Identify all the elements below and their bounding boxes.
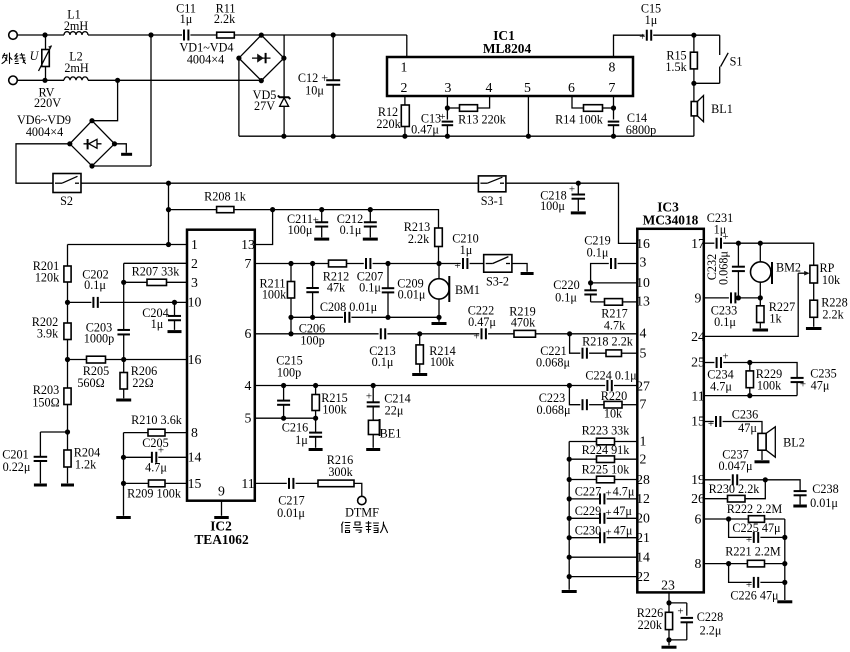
capacitor C232	[737, 243, 739, 266]
wire	[88, 34, 182, 36]
svg-text:R14 100k: R14 100k	[555, 112, 604, 126]
wire pin19 row	[704, 479, 731, 481]
capacitor C215	[283, 386, 285, 401]
svg-text:C229: C229	[575, 504, 601, 518]
junction	[526, 134, 531, 139]
svg-text:22μ: 22μ	[385, 404, 404, 418]
wire	[234, 210, 439, 228]
svg-text:120k: 120k	[35, 271, 60, 285]
junction	[691, 81, 696, 86]
wire	[238, 58, 240, 136]
capacitor C222	[481, 328, 483, 339]
resistor R202	[67, 302, 69, 323]
bridge rectifier VD6~VD9	[70, 121, 115, 166]
svg-text:4: 4	[640, 326, 647, 341]
capacitor C218	[577, 183, 579, 194]
svg-text:2: 2	[401, 80, 408, 95]
svg-text:1: 1	[191, 237, 198, 252]
svg-text:1.5k: 1.5k	[665, 60, 687, 74]
junction	[445, 105, 450, 110]
svg-text:3.9k: 3.9k	[37, 327, 59, 341]
svg-text:9: 9	[218, 484, 225, 499]
potentiometer RP	[810, 265, 818, 283]
switch S3-2	[484, 255, 512, 273]
svg-text:11: 11	[691, 389, 704, 404]
ground	[438, 317, 440, 322]
svg-text:1: 1	[640, 434, 647, 449]
wire	[234, 34, 406, 36]
wire	[693, 83, 695, 101]
wire	[17, 79, 64, 81]
wire	[693, 116, 695, 136]
junction	[371, 383, 376, 388]
svg-text:15: 15	[691, 414, 705, 429]
capacitor C228	[669, 602, 687, 604]
svg-text:6: 6	[695, 512, 702, 527]
wire	[406, 35, 408, 57]
svg-text:+: +	[473, 331, 479, 343]
wire	[123, 335, 125, 360]
svg-text:+: +	[366, 391, 372, 403]
terminal DTMF	[358, 496, 366, 504]
junction	[288, 331, 293, 336]
svg-text:15: 15	[188, 476, 202, 491]
svg-text:23: 23	[661, 578, 675, 593]
wire	[765, 563, 785, 565]
wire	[283, 35, 285, 97]
svg-text:0.1μ: 0.1μ	[359, 281, 381, 295]
svg-text:BL1: BL1	[711, 102, 733, 116]
capacitor C207	[365, 258, 367, 269]
resistor R14	[584, 105, 603, 112]
svg-text:10k: 10k	[822, 273, 841, 287]
junction	[567, 555, 572, 560]
svg-text:8: 8	[609, 60, 616, 75]
junction	[288, 315, 293, 320]
wire	[729, 519, 752, 537]
wire	[447, 107, 459, 109]
resistor R209	[149, 480, 166, 487]
junction	[567, 383, 572, 388]
resistor R226	[668, 603, 670, 612]
svg-text:S1: S1	[730, 55, 743, 69]
svg-text:2: 2	[191, 256, 198, 271]
junction	[436, 261, 441, 266]
capacitor C212	[369, 210, 371, 222]
junction	[148, 32, 153, 37]
capacitor C208	[344, 312, 346, 323]
svg-text:+: +	[677, 606, 683, 618]
wire	[760, 536, 784, 538]
svg-text:1μ: 1μ	[295, 433, 308, 447]
svg-text:5: 5	[245, 411, 252, 426]
wire	[693, 69, 695, 83]
svg-text:+: +	[605, 488, 611, 500]
wire	[168, 183, 170, 244]
wire	[723, 422, 762, 434]
wire	[100, 301, 187, 303]
wire	[607, 537, 638, 539]
svg-text:0.068μ: 0.068μ	[537, 403, 571, 417]
svg-text:+: +	[454, 260, 460, 272]
capacitor C231	[716, 238, 718, 249]
wire	[512, 264, 527, 272]
svg-text:1μ: 1μ	[151, 317, 164, 331]
junction	[166, 181, 171, 186]
wire pin10 row	[68, 301, 92, 303]
junction	[281, 134, 286, 139]
svg-text:0.47μ: 0.47μ	[468, 315, 496, 329]
svg-text:BE1: BE1	[380, 427, 402, 441]
junction	[445, 134, 450, 139]
wire pin7 row	[255, 263, 329, 265]
wire	[488, 333, 514, 335]
junction	[567, 496, 572, 501]
wire	[123, 263, 125, 282]
label waixian (external line)	[2, 53, 26, 64]
capacitor C229	[599, 513, 601, 524]
junction	[65, 300, 70, 305]
svg-text:R222 2.2M: R222 2.2M	[727, 502, 783, 516]
resistor R205	[87, 356, 106, 363]
wire	[569, 386, 580, 405]
junction	[115, 78, 120, 83]
junction	[666, 600, 671, 605]
svg-text:+: +	[639, 31, 645, 43]
svg-text:10μ: 10μ	[305, 84, 324, 98]
svg-text:8: 8	[191, 425, 198, 440]
wire pin3 row	[618, 263, 638, 265]
capacitor C11	[183, 30, 185, 41]
wire pin3 row	[124, 281, 147, 283]
junction	[782, 580, 787, 585]
wire pin22 row	[569, 576, 637, 578]
junction	[666, 637, 671, 642]
junction	[65, 429, 70, 434]
svg-text:0.068μ: 0.068μ	[536, 356, 570, 370]
ground	[777, 600, 792, 603]
junction	[313, 416, 318, 421]
resistor R215	[315, 386, 317, 395]
svg-text:TEA1062: TEA1062	[194, 532, 249, 547]
svg-text:560Ω: 560Ω	[77, 376, 104, 390]
wire	[603, 107, 614, 109]
capacitor C202	[92, 297, 94, 308]
svg-text:C238: C238	[812, 482, 838, 496]
wire	[351, 316, 439, 318]
svg-text:R209 100k: R209 100k	[127, 487, 182, 501]
resistor R223	[597, 438, 615, 445]
svg-text:0.01μ: 0.01μ	[277, 506, 305, 520]
svg-text:0.01μ: 0.01μ	[398, 288, 426, 302]
junction	[89, 163, 94, 168]
resistor R224	[597, 456, 615, 463]
svg-text:100k: 100k	[262, 288, 287, 302]
svg-text:BL2: BL2	[783, 436, 805, 450]
svg-text:C228: C228	[697, 610, 723, 624]
capacitor C230	[599, 532, 601, 543]
junction	[121, 357, 126, 362]
label DTMF input (Chinese)	[342, 522, 388, 533]
svg-text:S3-2: S3-2	[486, 275, 509, 289]
wire pin15 row	[124, 482, 149, 484]
wire	[283, 106, 285, 136]
bus wire	[239, 135, 694, 137]
resistor R219	[514, 330, 536, 337]
wire	[723, 243, 814, 265]
wire	[653, 34, 720, 36]
junction	[588, 280, 593, 285]
speaker BL1	[691, 102, 697, 116]
svg-text:7: 7	[609, 80, 616, 95]
buzzer BE1	[368, 420, 379, 434]
wire	[158, 456, 187, 458]
svg-text:0.1μ: 0.1μ	[714, 315, 736, 329]
svg-text:0.047μ: 0.047μ	[719, 459, 753, 473]
svg-text:DTMF: DTMF	[345, 506, 379, 520]
microphone BM1	[438, 264, 440, 279]
junction	[331, 32, 336, 37]
wire	[760, 581, 784, 583]
wire	[150, 35, 152, 166]
svg-text:8: 8	[695, 556, 702, 571]
switch S1	[719, 35, 721, 55]
junction	[331, 134, 336, 139]
svg-text:1000p: 1000p	[84, 332, 114, 346]
wire	[67, 405, 69, 433]
wire	[167, 281, 188, 283]
svg-text:0.1μ: 0.1μ	[372, 355, 394, 369]
junction	[259, 78, 264, 83]
capacitor C226	[753, 577, 755, 588]
wire	[723, 363, 797, 378]
svg-text:0.068μ: 0.068μ	[717, 251, 731, 285]
op-amp U IC1 ML8204 box	[387, 57, 633, 96]
junction	[121, 280, 126, 285]
capacitor C225	[753, 532, 755, 543]
junction	[782, 535, 787, 540]
wire	[67, 340, 69, 360]
svg-text:21: 21	[636, 530, 650, 545]
svg-text:4.7μ: 4.7μ	[710, 380, 732, 394]
inductor L2	[64, 77, 88, 80]
svg-text:C226 47μ: C226 47μ	[730, 589, 779, 603]
svg-text:7: 7	[245, 256, 252, 271]
capacitor C236	[715, 416, 717, 427]
svg-text:13: 13	[241, 237, 255, 252]
resistor R207	[147, 279, 167, 285]
junction	[736, 241, 741, 246]
wire	[81, 182, 478, 184]
svg-text:BM1: BM1	[455, 283, 480, 297]
wire pin11 row	[704, 395, 797, 397]
svg-text:+: +	[605, 526, 611, 538]
wire	[438, 247, 440, 264]
wire right bus	[784, 519, 786, 600]
wire	[123, 282, 125, 329]
junction	[281, 56, 286, 61]
svg-text:100p: 100p	[277, 366, 301, 380]
wire pin1 row	[569, 441, 596, 443]
svg-text:+: +	[439, 111, 445, 123]
wire pin14 row	[569, 556, 637, 558]
svg-text:6800p: 6800p	[626, 123, 656, 137]
inductor L1	[64, 32, 88, 35]
junction	[736, 295, 741, 300]
wire pin4 row	[255, 385, 605, 387]
wire	[165, 432, 187, 434]
svg-text:100k: 100k	[430, 355, 455, 369]
svg-text:BM2: BM2	[776, 261, 801, 275]
junction	[270, 207, 275, 212]
capacitor C206	[312, 264, 314, 288]
wire	[88, 79, 261, 81]
op-amp U IC2 TEA1062 box	[187, 230, 255, 501]
capacitor C201	[40, 431, 67, 433]
resistor R229	[749, 363, 751, 371]
svg-text:4004×4: 4004×4	[26, 125, 63, 139]
svg-text:13: 13	[636, 294, 650, 309]
svg-text:25: 25	[691, 355, 705, 370]
junction	[611, 105, 616, 110]
svg-text:6: 6	[568, 80, 575, 95]
wire	[729, 564, 752, 583]
wire pin23	[668, 592, 670, 603]
svg-text:R207 33k: R207 33k	[132, 265, 181, 279]
wire	[115, 144, 127, 153]
svg-text:220k: 220k	[638, 618, 663, 632]
svg-text:22Ω: 22Ω	[132, 376, 153, 390]
junction	[567, 574, 572, 579]
svg-text:14: 14	[188, 450, 202, 465]
wire pin10 row	[591, 282, 638, 284]
resistor R208	[217, 207, 234, 213]
ground	[116, 516, 131, 519]
svg-text:5: 5	[524, 80, 531, 95]
junction	[611, 134, 616, 139]
wire	[506, 183, 637, 243]
svg-text:22: 22	[636, 569, 650, 584]
svg-text:27V: 27V	[254, 99, 275, 113]
svg-text:220V: 220V	[34, 96, 61, 110]
svg-text:1k: 1k	[769, 312, 782, 326]
resistor R214	[419, 334, 421, 345]
svg-text:470k: 470k	[511, 316, 536, 330]
wire	[106, 359, 188, 361]
junction	[436, 315, 441, 320]
svg-text:0.1μ: 0.1μ	[340, 223, 362, 237]
capacitor C237	[732, 474, 734, 485]
terminal line-in top	[9, 31, 18, 40]
svg-text:R225 10k: R225 10k	[582, 463, 631, 477]
svg-text:R218 2.2k: R218 2.2k	[582, 335, 634, 349]
resistor R221	[747, 560, 764, 567]
wire C208 row	[291, 316, 343, 318]
svg-text:R210 3.6k: R210 3.6k	[131, 413, 183, 427]
resistor R222	[748, 516, 764, 523]
wire	[745, 480, 765, 499]
wire pin15 row	[704, 421, 714, 423]
svg-text:0.47μ: 0.47μ	[411, 123, 439, 137]
svg-text:1.2k: 1.2k	[75, 458, 97, 472]
capacitor C203	[117, 329, 130, 331]
wire	[354, 483, 362, 496]
svg-text:R221 2.2M: R221 2.2M	[725, 545, 781, 559]
wire pin25 row	[704, 362, 715, 364]
svg-text:2.2k: 2.2k	[408, 232, 430, 246]
wire	[296, 482, 318, 484]
capacitor C220	[590, 283, 592, 290]
junction	[402, 134, 407, 139]
capacitor C12	[332, 35, 334, 80]
resistor R228	[810, 300, 818, 317]
wire pin2	[404, 96, 406, 105]
wire pin7	[613, 96, 615, 120]
junction	[310, 261, 315, 266]
capacitor C221	[582, 348, 584, 359]
junction	[259, 33, 264, 38]
wire	[607, 498, 638, 500]
zener diode VD5	[280, 98, 289, 107]
svg-text:27: 27	[636, 379, 650, 394]
wire pin24 row	[704, 273, 798, 336]
svg-text:C236: C236	[732, 408, 758, 422]
wire pin17 row	[704, 242, 715, 244]
junction	[166, 242, 171, 247]
svg-text:28: 28	[636, 472, 650, 487]
wire pin8 row	[124, 432, 149, 434]
junction	[567, 477, 572, 482]
capacitor C224	[606, 380, 608, 391]
wire	[536, 333, 638, 335]
bridge rectifier VD1~VD4	[239, 35, 284, 81]
svg-text:10: 10	[636, 275, 650, 290]
wire left bus IC3	[568, 442, 570, 590]
svg-text:C227: C227	[575, 485, 601, 499]
ground	[121, 153, 132, 156]
capacitor C223	[582, 399, 584, 410]
wire	[16, 144, 70, 183]
junction	[368, 207, 373, 212]
wire	[17, 34, 64, 36]
svg-text:R230 2.2k: R230 2.2k	[709, 482, 761, 496]
wire	[165, 482, 187, 484]
wire pin13	[255, 210, 273, 245]
capacitor C227	[599, 493, 601, 504]
wire	[615, 441, 638, 443]
resistor R212	[329, 260, 347, 267]
junction	[747, 360, 752, 365]
junction	[417, 331, 422, 336]
svg-text:47k: 47k	[327, 281, 346, 295]
svg-text:26: 26	[691, 491, 705, 506]
capacitor C210	[462, 258, 464, 269]
svg-text:100p: 100p	[300, 334, 324, 348]
junction	[691, 33, 696, 38]
junction	[65, 357, 70, 362]
svg-text:150Ω: 150Ω	[32, 396, 59, 410]
resistor R11	[217, 32, 235, 38]
wire	[169, 209, 217, 211]
wire	[622, 404, 637, 406]
svg-text:R208 1k: R208 1k	[204, 190, 247, 204]
wire	[470, 263, 484, 265]
svg-text:R220: R220	[601, 389, 627, 403]
svg-text:2.2k: 2.2k	[214, 12, 236, 26]
svg-text:16: 16	[188, 352, 202, 367]
wire	[693, 35, 695, 52]
wire pin3	[446, 96, 448, 120]
